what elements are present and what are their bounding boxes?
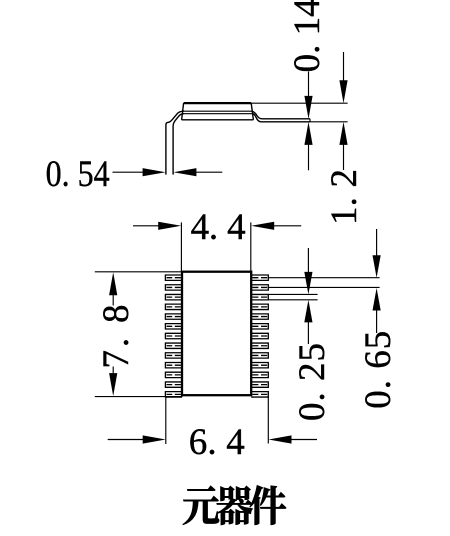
pin L7: [165, 333, 182, 338]
pin R12: [251, 382, 268, 387]
pin R10: [251, 362, 268, 367]
side view: left lead inner edge: [173, 114, 184, 175]
pin L11: [165, 372, 182, 377]
svg-text:1. 2: 1. 2: [324, 169, 365, 225]
pin L13: [165, 392, 182, 397]
pin L12: [165, 382, 182, 387]
dim 4.4 left arrow: [133, 222, 181, 230]
pin 3 top edge extension line: [268, 293, 317, 295]
dimension 4.4 label: [191, 207, 246, 248]
dimension 0.14 label (rotated): [287, 0, 328, 72]
dim 4.4 left extension line: [180, 222, 182, 271]
dim 0.54 right arrow: [173, 168, 222, 176]
dim 0.65 lower arrow: [373, 288, 381, 333]
pin 3 bottom edge extension line: [268, 299, 317, 301]
title text 器: [217, 486, 253, 525]
top view: package body outline: [182, 272, 251, 396]
dim 1.2 lower arrow: [339, 122, 347, 170]
extension line from foot bottom: [310, 121, 348, 123]
side view: mold parting lower line: [183, 113, 253, 115]
dimension 0.25 label (rotated): [292, 343, 333, 421]
pin R11: [251, 372, 268, 377]
dim 7.8 upper arrow: [109, 272, 117, 305]
pin R8: [251, 343, 268, 348]
pin R7: [251, 333, 268, 338]
pin R6: [251, 324, 268, 329]
pin R3: [251, 294, 268, 299]
pin L4: [165, 304, 182, 309]
pin 2 pitch extension line: [268, 286, 379, 288]
pin L5: [165, 314, 182, 319]
svg-text:0. 54: 0. 54: [46, 154, 110, 195]
side view: lead tip cap: [309, 119, 311, 122]
pin 1 pitch extension line: [268, 277, 379, 279]
pin R1: [251, 275, 268, 280]
dim 1.2 upper arrow: [339, 52, 347, 103]
dimension 1.2 label (rotated): [324, 169, 365, 225]
pin R5: [251, 314, 268, 319]
dim 7.8 bottom extension line: [95, 396, 183, 398]
side view: right lead top edge / foot: [251, 111, 310, 119]
dim 0.14 upper arrow: [304, 72, 312, 119]
dim 0.25 lower arrow: [304, 300, 312, 344]
side view: body right edge: [251, 103, 253, 120]
extension line from body top: [251, 102, 347, 104]
dim 6.4 left arrow: [108, 435, 166, 443]
side view: package body top edge: [184, 102, 252, 104]
pin L1: [165, 275, 182, 280]
dim 0.14 lower arrow: [304, 122, 312, 170]
pin L8: [165, 343, 182, 348]
svg-text:4. 4: 4. 4: [191, 207, 246, 248]
dim 7.8 lower arrow: [109, 367, 117, 397]
side view: body bottom edge: [182, 119, 254, 121]
side view: body left edge: [182, 103, 184, 120]
dimension 0.65 label (rotated): [358, 331, 399, 409]
dim 4.4 right extension line: [250, 222, 252, 271]
pin L9: [165, 353, 182, 358]
dim 7.8 top extension line: [95, 271, 182, 273]
dim 4.4 right arrow: [251, 222, 301, 230]
side view: right lead bottom edge: [253, 114, 310, 122]
dim 6.4 right arrow: [269, 435, 318, 443]
pin R4: [251, 304, 268, 309]
pin R9: [251, 353, 268, 358]
title text 件: [250, 485, 286, 524]
pin L2: [165, 285, 182, 290]
dim 6.4 right extension line: [267, 396, 269, 444]
dimension 6.4 label: [189, 422, 245, 463]
svg-text:6. 4: 6. 4: [189, 422, 245, 463]
dim 0.65 upper arrow: [373, 229, 381, 278]
side view: left lead outer edge: [166, 111, 184, 175]
dimension 0.54 label: [46, 154, 110, 195]
dimension 7.8 label (rotated): [96, 305, 137, 369]
pin L3: [165, 294, 182, 299]
title text 元: [183, 486, 219, 525]
dim 0.25 upper arrow: [304, 248, 312, 294]
dim 0.54 left arrow: [113, 168, 166, 176]
dim 6.4 left extension line: [165, 398, 167, 444]
pin R13: [251, 392, 268, 397]
svg-text:0. 14: 0. 14: [287, 0, 328, 72]
pin L10: [165, 362, 182, 367]
side view: mold parting upper line: [183, 110, 251, 112]
pin L6: [165, 324, 182, 329]
pin R2: [251, 285, 268, 290]
